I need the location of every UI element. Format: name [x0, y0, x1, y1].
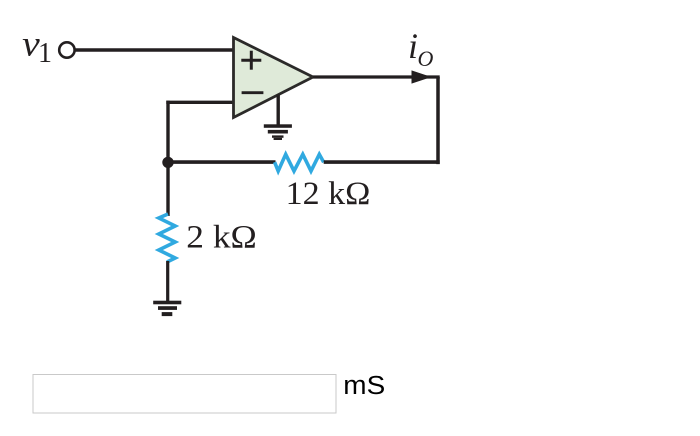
arrowhead output current [412, 70, 432, 83]
resistor R feedback 12 kOhm [275, 154, 324, 171]
wire 2k resistor to ground [166, 261, 169, 303]
wire op-amp output [313, 75, 440, 78]
answer input box [33, 375, 336, 414]
label io [408, 26, 434, 71]
svg-text:O: O [418, 46, 434, 71]
svg-text:mS: mS [343, 372, 385, 400]
svg-text:1: 1 [38, 38, 52, 69]
wire right vertical [436, 77, 440, 164]
wire vertical down to node [166, 101, 169, 216]
ground below op-amp [264, 95, 292, 141]
op-amp U1 [234, 38, 314, 118]
wire node to 12k resistor [168, 160, 276, 164]
node v1 input terminal [59, 42, 74, 57]
wire v1 to op-amp + input [76, 48, 234, 51]
label v1 [22, 24, 52, 69]
svg-text:i: i [408, 26, 418, 66]
node junction dot [162, 157, 173, 168]
svg-text:2 kΩ: 2 kΩ [186, 220, 256, 256]
svg-text:12 kΩ: 12 kΩ [286, 176, 371, 212]
wire - input stub [166, 101, 233, 104]
wire 12k to right corner [324, 160, 440, 164]
ground bottom [153, 301, 181, 316]
resistor R1 2 kOhm [159, 214, 175, 262]
